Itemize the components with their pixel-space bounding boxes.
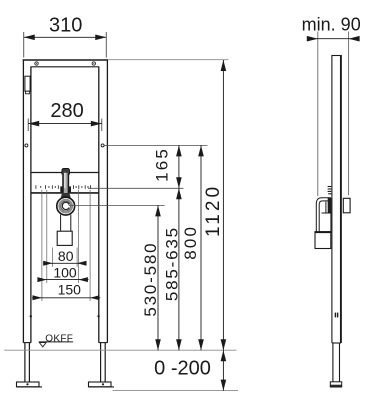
svg-text:280: 280 — [50, 100, 83, 122]
right foot — [89, 382, 115, 387]
dim 1120 — [203, 60, 226, 350]
svg-text:530-580: 530-580 — [141, 242, 160, 317]
OKFF label — [39, 333, 73, 347]
svg-text:100: 100 — [53, 264, 77, 280]
thread stub marks — [328, 187, 332, 194]
drain pipe below circle — [60, 215, 62, 232]
pipe flare — [61, 193, 71, 198]
ext line 145 (165/800 top) — [104, 144, 207, 146]
dim min. 90 — [302, 15, 361, 42]
dashed centerline ticks — [36, 185, 91, 189]
svg-text:310: 310 — [49, 15, 82, 37]
ext line 188 (165 bottom / 585-635 top) — [88, 187, 184, 189]
dim 800 — [181, 145, 204, 350]
water connection circle — [57, 197, 75, 215]
svg-text:80: 80 — [58, 248, 74, 264]
left foot — [17, 382, 43, 387]
side adjust screw mark — [335, 313, 339, 318]
mounting box — [57, 231, 72, 245]
pipe nut — [60, 186, 62, 192]
floor line — [4, 349, 236, 351]
frame top ext line (gray, to 1120 dim) — [108, 59, 228, 61]
svg-text:OKFF: OKFF — [45, 333, 73, 344]
dim 100 — [37, 264, 88, 282]
water inlet elbow — [316, 198, 331, 231]
wall line left — [317, 32, 319, 197]
ext line 205 (530-580 top) — [69, 204, 165, 206]
leg adjust screws — [30, 315, 32, 317]
side foot — [330, 382, 341, 387]
dim 280 — [28, 100, 102, 131]
crossbar — [31, 173, 99, 193]
left rail — [23, 59, 31, 342]
right rail — [99, 59, 108, 342]
top rail screw right — [92, 62, 95, 65]
svg-text:800: 800 — [181, 225, 200, 260]
elbow dark connector — [328, 198, 331, 213]
svg-text:165: 165 — [153, 147, 172, 182]
dim 530-580 — [141, 205, 161, 350]
small-dim extension lines — [42, 190, 90, 301]
side mounting box — [315, 232, 332, 249]
side bracket — [343, 198, 350, 213]
dim 80 — [43, 248, 86, 266]
top rail screw left — [35, 62, 38, 65]
svg-text:585-635: 585-635 — [163, 226, 182, 301]
dim 165 — [153, 145, 182, 188]
svg-text:150: 150 — [58, 282, 82, 298]
rail screw left mid — [25, 144, 28, 147]
svg-text:0 -200: 0 -200 — [154, 358, 211, 380]
wall line right — [348, 32, 350, 196]
dim 0-200 — [154, 350, 226, 390]
legs front — [25, 343, 105, 382]
rail screw right mid — [101, 144, 104, 147]
svg-text:1120: 1120 — [203, 184, 224, 237]
dim 310 — [24, 15, 107, 58]
bottom level line — [113, 390, 239, 392]
flush pipe — [62, 168, 70, 193]
top rail — [23, 60, 108, 67]
svg-text:min. 90: min. 90 — [302, 15, 361, 35]
left rail clip — [25, 76, 30, 91]
dim 150 — [32, 282, 100, 301]
side profile — [331, 56, 341, 344]
dim 585-635 — [163, 188, 182, 350]
side leg — [332, 343, 341, 382]
